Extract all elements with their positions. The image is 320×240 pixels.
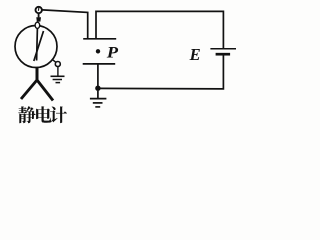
ground (capacitor) bar 2 [93,102,103,104]
electrostatic meter knob terminal [36,7,42,13]
battery E negative plate [216,53,231,56]
electrostatic meter body [15,26,57,68]
svg-text:P: P [106,45,119,62]
ground (meter case) bar 3 [56,82,61,84]
ground (capacitor) bar 1 [90,98,107,100]
char 电 [36,106,52,122]
ground (capacitor) stem [97,91,99,99]
ground (meter case) bar 1 [51,75,65,77]
wire bottom plate down [97,64,99,88]
wire knob to capacitor top plate [42,10,87,39]
insulator plug [35,22,40,28]
capacitor P bottom plate [83,63,116,65]
case terminal stub [53,60,56,63]
ground (meter case) bar 2 [53,79,62,81]
knob neck [38,13,40,17]
ground (meter case) stem [57,67,59,76]
label bullet for capacitor P [96,49,100,53]
ground (capacitor) bar 3 [95,106,100,108]
label 静电计 (drawn as paths) [18,106,67,123]
char 计 [50,106,67,123]
insulator stopper [36,17,41,21]
svg-text:E: E [189,45,201,64]
junction node dot [95,86,100,91]
char 静 [18,106,35,123]
wire node to battery negative [98,55,223,89]
stand left leg [21,80,37,99]
case terminal [55,62,60,67]
electrostatic meter needle [34,31,44,61]
electrostatic meter rod [36,28,39,61]
stand stem [36,67,39,81]
stand right leg [37,80,53,101]
capacitor P top plate [83,38,116,40]
battery E positive plate [210,48,236,50]
wire top plate to battery positive [96,11,223,48]
